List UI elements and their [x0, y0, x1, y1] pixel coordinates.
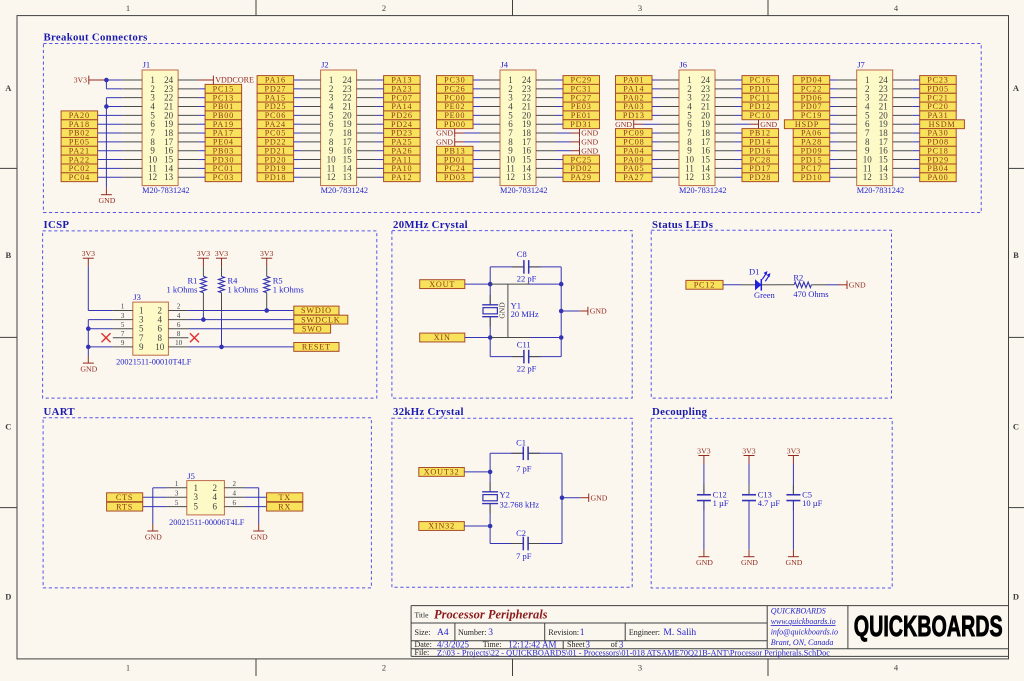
svg-text:PD22: PD22 — [264, 138, 286, 147]
port PC19 — [793, 111, 830, 120]
svg-text:Breakout Connectors: Breakout Connectors — [44, 32, 148, 44]
svg-text:PD24: PD24 — [391, 120, 413, 129]
wire — [556, 97, 563, 99]
svg-text:PB01: PB01 — [213, 102, 234, 111]
svg-text:PD29: PD29 — [927, 155, 949, 164]
svg-text:22 pF: 22 pF — [517, 364, 537, 374]
svg-text:PC24: PC24 — [444, 164, 465, 173]
svg-text:J5: J5 — [187, 471, 195, 481]
svg-text:R2: R2 — [793, 272, 803, 282]
wire — [556, 123, 563, 125]
port PA27 — [616, 173, 653, 182]
port PE04 — [205, 138, 242, 147]
port PD17 — [742, 164, 779, 173]
svg-text:PD21: PD21 — [264, 146, 286, 155]
svg-text:PB02: PB02 — [69, 129, 90, 138]
svg-text:PC26: PC26 — [444, 85, 465, 94]
svg-text:PC08: PC08 — [623, 138, 644, 147]
capacitor C1 — [511, 447, 540, 461]
wire — [830, 97, 837, 99]
wire — [735, 150, 742, 152]
svg-text:20021511-00006T4LF: 20021511-00006T4LF — [169, 518, 245, 527]
port PA23 — [384, 84, 421, 93]
wire 3V3 to R5 — [266, 266, 268, 276]
svg-text:J7: J7 — [857, 59, 865, 69]
svg-text:M. Salih: M. Salih — [663, 628, 696, 638]
svg-text:PC03: PC03 — [213, 173, 234, 182]
svg-text:Green: Green — [754, 290, 776, 300]
wire — [473, 106, 480, 108]
wire — [556, 114, 563, 116]
port PD25 — [257, 102, 294, 111]
capacitor C5 — [786, 485, 800, 511]
junction XOUT — [488, 282, 493, 287]
svg-text:20MHz Crystal: 20MHz Crystal — [393, 219, 468, 231]
wire — [652, 79, 659, 81]
port RX — [267, 502, 303, 511]
svg-text:6: 6 — [177, 321, 181, 329]
wire — [735, 167, 742, 169]
power port VDDCORE at J1 pin 24 — [198, 76, 254, 85]
svg-text:PA28: PA28 — [801, 138, 822, 147]
svg-text:PA02: PA02 — [623, 93, 644, 102]
svg-text:13: 13 — [343, 172, 353, 182]
svg-text:PA25: PA25 — [391, 138, 412, 147]
svg-text:PD08: PD08 — [927, 138, 949, 147]
wire — [913, 150, 920, 152]
svg-text:GND: GND — [436, 137, 453, 146]
svg-text:UART: UART — [44, 406, 76, 418]
wire — [98, 167, 123, 169]
svg-text:PA03: PA03 — [623, 102, 644, 111]
wire 3V3 to C5 — [792, 464, 794, 494]
wire — [198, 114, 205, 116]
wire — [377, 97, 384, 99]
wire — [294, 167, 301, 169]
port PD07 — [793, 102, 830, 111]
port PD28 — [742, 173, 779, 182]
wire — [294, 132, 301, 134]
wire — [377, 176, 384, 178]
junction J1 pin4 GND — [104, 104, 109, 109]
port PA21 — [61, 146, 98, 155]
svg-text:PC10: PC10 — [749, 111, 770, 120]
port PC05 — [257, 129, 294, 138]
label C5 — [802, 490, 823, 509]
port PD02 — [563, 164, 600, 173]
svg-text:XIN32: XIN32 — [428, 522, 455, 531]
port PC16 — [742, 76, 779, 85]
LED D1 — [741, 271, 777, 291]
wire top rail 20MHz — [490, 266, 561, 268]
svg-text:PC01: PC01 — [213, 164, 234, 173]
port PE00 — [437, 111, 474, 120]
port PA20 — [61, 111, 98, 120]
title block frame — [411, 606, 1008, 657]
svg-text:32kHz Crystal: 32kHz Crystal — [393, 406, 464, 418]
wire — [198, 176, 205, 178]
crystal case pins to GND loop — [490, 284, 561, 337]
svg-text:www.quickboards.io: www.quickboards.io — [771, 617, 836, 626]
company info cell — [771, 607, 838, 648]
power 3V3 above C12 — [697, 446, 711, 463]
wire — [652, 106, 659, 108]
svg-text:3V3: 3V3 — [260, 249, 274, 258]
svg-text:PA26: PA26 — [391, 146, 412, 155]
svg-text:GND: GND — [785, 558, 802, 567]
svg-text:PA12: PA12 — [391, 173, 412, 182]
svg-text:PA19: PA19 — [213, 120, 234, 129]
wire top rail 32kHz — [490, 452, 562, 454]
svg-text:12: 12 — [863, 172, 872, 182]
svg-text:PC22: PC22 — [801, 85, 822, 94]
svg-text:Z:\03 - Projects\22 - QUICKBOA: Z:\03 - Projects\22 - QUICKBOARDS\01 - P… — [437, 648, 830, 657]
pins J1 — [122, 80, 198, 177]
svg-text:C8: C8 — [517, 249, 527, 259]
wire — [913, 106, 920, 108]
svg-text:2: 2 — [177, 303, 181, 311]
svg-text:PE00: PE00 — [444, 111, 465, 120]
wire — [377, 167, 384, 169]
port PB03 — [205, 146, 242, 155]
svg-text:20021511-00010T4LF: 20021511-00010T4LF — [116, 357, 192, 366]
svg-text:PC19: PC19 — [801, 111, 822, 120]
port PB01 — [205, 102, 242, 111]
svg-text:GND: GND — [615, 120, 632, 129]
port PC06 — [257, 111, 294, 120]
power GND at J4 pin 16 — [556, 146, 599, 155]
port PA29 — [563, 173, 600, 182]
svg-text:PD03: PD03 — [444, 173, 466, 182]
svg-text:3: 3 — [488, 628, 493, 638]
wire — [98, 114, 123, 116]
wire — [473, 123, 480, 125]
ground GND left of J5 — [145, 524, 162, 541]
wire — [913, 141, 920, 143]
svg-text:PA14: PA14 — [623, 85, 644, 94]
port PD01 — [437, 155, 474, 164]
svg-text:PE04: PE04 — [213, 138, 234, 147]
wire — [473, 150, 480, 152]
port PA15 — [257, 93, 294, 102]
wire — [377, 114, 384, 116]
svg-text:6: 6 — [232, 499, 236, 507]
port PC07 — [384, 93, 421, 102]
dashed box UART — [43, 418, 371, 588]
power 3V3 above C5 — [787, 446, 801, 463]
svg-text:XOUT32: XOUT32 — [424, 468, 460, 477]
label C1 — [516, 438, 532, 474]
wire — [735, 132, 742, 134]
wire C13 to GND — [748, 501, 750, 550]
svg-text:PA13: PA13 — [391, 76, 412, 85]
svg-text:Status LEDs: Status LEDs — [652, 219, 713, 231]
port PC01 — [205, 164, 242, 173]
svg-text:GND: GND — [436, 129, 453, 138]
svg-text:QUICKBOARDS: QUICKBOARDS — [771, 607, 826, 616]
port PA25 — [384, 138, 421, 147]
svg-text:PA04: PA04 — [623, 146, 644, 155]
svg-text:PE03: PE03 — [571, 102, 592, 111]
wire — [294, 114, 301, 116]
svg-text:PD25: PD25 — [264, 102, 286, 111]
svg-text:PC00: PC00 — [444, 93, 465, 102]
wire XIN — [465, 337, 490, 339]
wire — [830, 88, 837, 90]
svg-text:PA30: PA30 — [927, 129, 948, 138]
connector J6 — [679, 59, 726, 195]
port PC00 — [437, 93, 474, 102]
port PD26 — [384, 111, 421, 120]
wire J5 pin4 to TX — [244, 496, 266, 498]
svg-text:XIN: XIN — [434, 333, 451, 342]
svg-text:PE01: PE01 — [571, 111, 592, 120]
svg-text:PC11: PC11 — [750, 93, 771, 102]
port PD22 — [257, 138, 294, 147]
svg-text:PC16: PC16 — [749, 76, 770, 85]
svg-text:M20-7831242: M20-7831242 — [679, 186, 726, 195]
port PC23 — [920, 76, 957, 85]
connector J4 — [500, 59, 547, 195]
junction J3 pin5 — [86, 326, 91, 331]
svg-text:Engineer:: Engineer: — [629, 628, 660, 637]
svg-text:PA21: PA21 — [69, 146, 90, 155]
svg-text:GND: GND — [145, 532, 162, 541]
svg-text:4.7 µF: 4.7 µF — [758, 498, 781, 508]
svg-text:Processor Peripherals: Processor Peripherals — [434, 608, 548, 622]
svg-text:PA11: PA11 — [392, 155, 413, 164]
svg-text:12: 12 — [506, 172, 515, 182]
wire J5 pin6 to RX — [244, 506, 266, 508]
svg-text:1: 1 — [121, 303, 125, 311]
svg-text:PA16: PA16 — [265, 76, 286, 85]
wire — [735, 97, 742, 99]
svg-text:7: 7 — [121, 330, 125, 338]
label C2 — [516, 528, 532, 561]
junction R4 — [219, 345, 224, 350]
svg-text:GND: GND — [696, 558, 713, 567]
svg-text:3V3: 3V3 — [787, 446, 801, 455]
wire — [913, 97, 920, 99]
wire — [913, 79, 920, 81]
svg-text:M20-7831242: M20-7831242 — [142, 186, 189, 195]
port PA05 — [616, 164, 653, 173]
svg-text:C2: C2 — [516, 528, 526, 538]
port PE01 — [563, 111, 600, 120]
svg-text:2: 2 — [382, 3, 386, 13]
svg-text:PB13: PB13 — [444, 146, 465, 155]
wire — [556, 167, 563, 169]
svg-text:SWDCLK: SWDCLK — [301, 315, 340, 324]
svg-text:PD02: PD02 — [570, 164, 592, 173]
svg-text:PD17: PD17 — [749, 164, 771, 173]
wire — [652, 132, 659, 134]
svg-text:PD27: PD27 — [264, 85, 286, 94]
port PC11 — [742, 93, 779, 102]
wire — [198, 106, 205, 108]
port PD04 — [793, 76, 830, 85]
port XOUT — [420, 280, 465, 289]
power port 3V3 at J1 — [74, 76, 107, 85]
wire — [294, 88, 301, 90]
svg-text:info@quickboards.io: info@quickboards.io — [771, 628, 838, 637]
svg-text:1 µF: 1 µF — [713, 498, 729, 508]
power 3V3 above C13 — [742, 446, 756, 463]
wire — [830, 176, 837, 178]
power GND 32kHz — [562, 493, 608, 502]
port PA16 — [257, 76, 294, 85]
svg-text:J1: J1 — [143, 59, 151, 69]
wire — [98, 132, 123, 134]
svg-text:1: 1 — [126, 663, 130, 673]
pins J3 — [113, 303, 189, 347]
junction J3 pin9 — [86, 345, 91, 350]
port PD03 — [437, 173, 474, 182]
svg-text:PD11: PD11 — [749, 85, 771, 94]
wire — [473, 176, 480, 178]
ground GND right of J5 — [251, 524, 268, 541]
port PD16 — [742, 146, 779, 155]
port PC13 — [205, 93, 242, 102]
port PA31 — [920, 111, 957, 120]
junction R5 — [264, 308, 269, 313]
svg-text:PD18: PD18 — [264, 173, 286, 182]
capacitor C13 — [742, 485, 756, 511]
wire — [377, 106, 384, 108]
svg-text:PD16: PD16 — [749, 146, 771, 155]
port PC04 — [61, 173, 98, 182]
svg-text:3: 3 — [175, 489, 179, 497]
wire — [473, 97, 480, 99]
svg-text:GND: GND — [590, 307, 607, 316]
svg-text:3: 3 — [638, 3, 642, 13]
svg-text:2: 2 — [382, 663, 386, 673]
svg-text:Size:: Size: — [415, 628, 431, 637]
port PA04 — [616, 146, 653, 155]
wire — [377, 132, 384, 134]
pins J4 — [480, 80, 556, 177]
wire — [294, 159, 301, 161]
svg-text:PB04: PB04 — [927, 164, 948, 173]
label Y2 — [500, 489, 540, 509]
svg-text:GND: GND — [591, 493, 608, 502]
wire — [735, 114, 742, 116]
wire — [830, 132, 837, 134]
svg-text:D: D — [1013, 592, 1019, 602]
no-connect J3 pin 7 — [102, 333, 111, 342]
wire — [735, 176, 742, 178]
svg-text:C1: C1 — [516, 438, 526, 448]
port PA00 — [920, 173, 957, 182]
port PD29 — [920, 155, 957, 164]
port HSDM — [920, 120, 965, 129]
wire — [294, 141, 301, 143]
svg-text:PD07: PD07 — [801, 102, 823, 111]
svg-text:PD05: PD05 — [927, 85, 949, 94]
svg-text:PD26: PD26 — [391, 111, 413, 120]
svg-text:PD06: PD06 — [801, 93, 823, 102]
dashed box ICSP — [43, 231, 377, 398]
wire J5 pin5 to RTS — [143, 506, 167, 508]
wire XOUT — [465, 283, 490, 285]
resistor R1 — [166, 275, 206, 294]
svg-text:32.768 kHz: 32.768 kHz — [500, 500, 540, 510]
svg-text:GND: GND — [498, 302, 507, 319]
wire — [294, 123, 301, 125]
port HSDP — [784, 120, 829, 129]
capacitor C8 — [512, 260, 541, 274]
wire — [98, 176, 123, 178]
wire — [652, 167, 659, 169]
svg-text:10: 10 — [155, 342, 165, 352]
wire left rail 20MHz — [489, 267, 491, 357]
port PD19 — [257, 164, 294, 173]
svg-text:PD00: PD00 — [444, 120, 466, 129]
wire — [473, 159, 480, 161]
svg-text:1 kOhms: 1 kOhms — [166, 284, 197, 294]
svg-text:Title: Title — [415, 611, 430, 620]
pins J6 — [659, 80, 735, 177]
svg-text:PC06: PC06 — [265, 111, 286, 120]
resistor R2 — [793, 272, 828, 299]
port SWO — [294, 324, 331, 333]
wire — [652, 176, 659, 178]
wire GND net to J3 pins 3,5,9 — [88, 320, 113, 357]
port PE03 — [563, 102, 600, 111]
svg-text:C: C — [1013, 422, 1019, 432]
power GND 20MHz — [561, 307, 607, 316]
wire 3V3 to R1 — [202, 266, 204, 276]
port PB13 — [437, 146, 474, 155]
svg-text:M20-7831242: M20-7831242 — [857, 186, 904, 195]
port PC26 — [437, 84, 474, 93]
svg-text:TX: TX — [278, 493, 291, 502]
wire right rail 20MHz — [560, 267, 562, 357]
svg-text:XOUT: XOUT — [429, 280, 455, 289]
svg-text:12: 12 — [327, 172, 336, 182]
wire — [830, 106, 837, 108]
port SWDCLK — [294, 315, 348, 324]
wire D1 to R2 — [777, 284, 794, 286]
port PA19 — [205, 120, 242, 129]
svg-text:PC07: PC07 — [391, 93, 412, 102]
wire — [377, 123, 384, 125]
crystal Y2 — [482, 482, 498, 514]
dashed box 20MHz Crystal — [392, 231, 632, 399]
svg-text:PD20: PD20 — [264, 155, 286, 164]
svg-text:PD12: PD12 — [749, 102, 771, 111]
port PC21 — [920, 93, 957, 102]
wire — [473, 167, 480, 169]
svg-text:6: 6 — [213, 502, 218, 512]
svg-text:File:: File: — [415, 648, 430, 657]
svg-text:GND: GND — [80, 364, 97, 373]
svg-text:PC21: PC21 — [927, 93, 948, 102]
svg-text:9: 9 — [139, 342, 144, 352]
svg-text:HSDM: HSDM — [929, 120, 956, 129]
svg-text:PA23: PA23 — [391, 85, 412, 94]
svg-text:Brant, ON, Canada: Brant, ON, Canada — [771, 638, 834, 647]
port PD08 — [920, 138, 957, 147]
svg-text:J4: J4 — [501, 59, 509, 69]
wire — [913, 114, 920, 116]
wire — [735, 88, 742, 90]
svg-text:Number:: Number: — [458, 628, 486, 637]
junction XOUT32 — [488, 470, 493, 475]
connector J1 — [142, 59, 189, 195]
wire — [556, 176, 563, 178]
dashed box Decoupling — [651, 418, 892, 588]
